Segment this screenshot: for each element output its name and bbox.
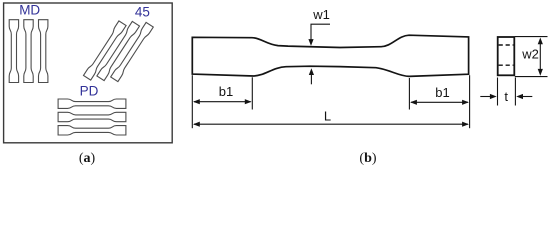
svg-text:w1: w1 [312,7,330,22]
svg-text:L: L [324,109,331,124]
w1 lower arrow [310,73,312,84]
svg-text:t: t [504,89,508,104]
svg-text:b1: b1 [219,84,233,99]
45-degree specimen 2 (diagonal dogbone) [97,21,140,80]
MD specimen 1 (vertical dogbone) [9,20,18,83]
side view rectangle [498,37,515,75]
w2 extension lines [515,36,548,38]
panel (a) frame box [4,3,173,143]
L dimension line [194,123,468,125]
side view hidden dashed line lower [499,64,514,66]
MD specimen 2 (vertical dogbone) [24,20,33,83]
b1 left dimension line [194,101,251,103]
MD specimen 3 (vertical dogbone) [39,20,48,83]
PD specimen 3 (horizontal dogbone) [58,126,126,135]
b1 right dimension line [411,101,468,103]
side view hidden dashed line upper [499,44,514,46]
svg-text:w2: w2 [521,47,539,62]
svg-text:PD: PD [80,84,99,99]
svg-text:b1: b1 [435,85,449,100]
svg-text:45: 45 [135,4,150,19]
PD specimen 2 (horizontal dogbone) [58,112,126,121]
svg-text:(a): (a) [79,151,96,166]
PD specimen 1 (horizontal dogbone) [58,99,126,108]
L right extension line [469,75,471,128]
t extension lines [497,78,499,106]
specimen outline (top view) [192,35,468,76]
t left arrow [480,96,491,98]
w1 leader line [311,24,330,40]
w2 dimension line [539,42,541,70]
svg-text:(b): (b) [359,151,376,166]
b1 right extension line [408,78,410,110]
45-degree specimen 1 (diagonal dogbone) [83,21,126,80]
45-degree specimen 3 (diagonal dogbone) [111,22,154,81]
svg-text:MD: MD [19,3,40,18]
b1 left extension lines [191,75,193,128]
t right arrow [522,96,533,98]
